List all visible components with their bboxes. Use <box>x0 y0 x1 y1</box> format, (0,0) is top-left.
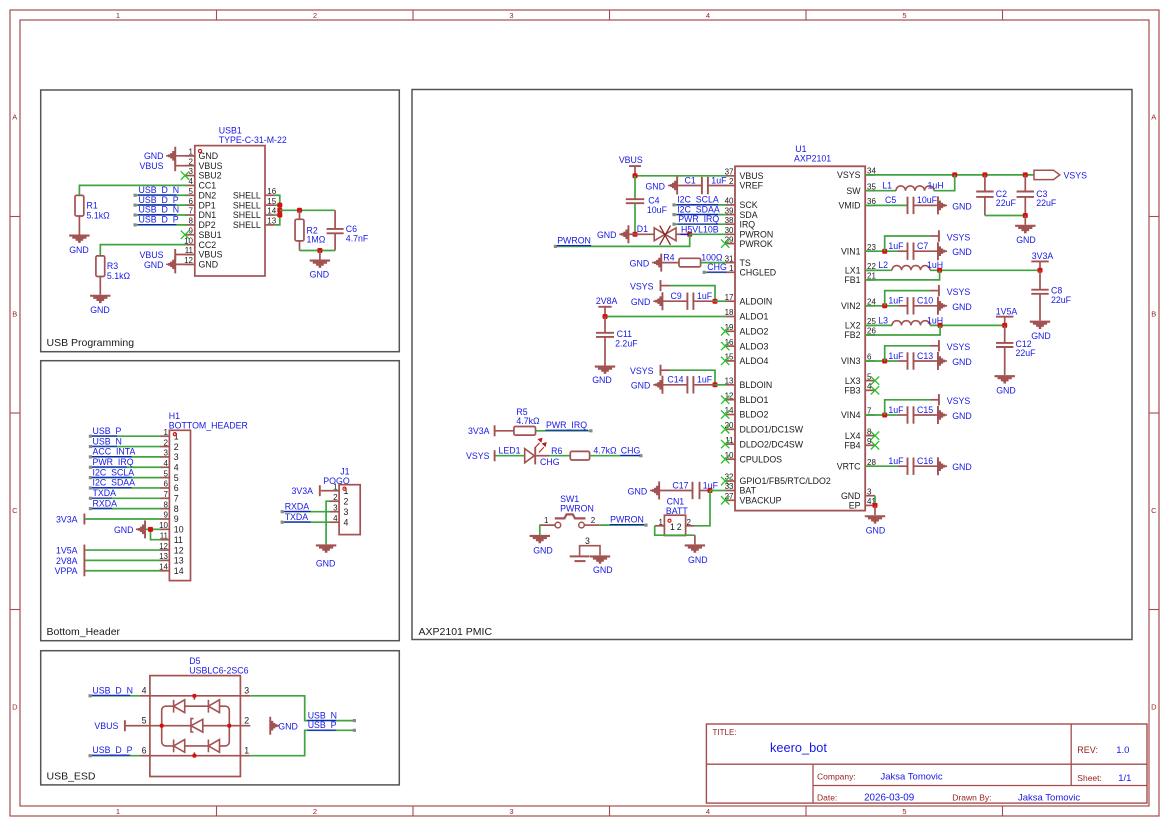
J1 pin 4 <box>330 521 339 523</box>
connector J1 body <box>339 485 360 535</box>
U1 pin 16 (ALDO3) <box>725 345 735 347</box>
svg-text:6: 6 <box>174 483 179 493</box>
ground symbol at SW1 pin 1 <box>530 535 550 543</box>
connector H1 body <box>169 430 190 580</box>
wire D5 pin 3 to net USB_N <box>250 696 354 721</box>
D5 center zener diode <box>191 719 194 732</box>
wire U1 to C15 node <box>865 414 898 416</box>
U1 pin 37 (VBUS) <box>725 175 735 177</box>
svg-text:USBLC6-2SC6: USBLC6-2SC6 <box>189 666 248 676</box>
svg-text:6: 6 <box>164 480 169 489</box>
no-connect X at U1 pin 15 <box>721 357 729 365</box>
svg-text:GND: GND <box>533 546 553 556</box>
svg-text:LX3: LX3 <box>845 376 861 386</box>
capacitor C10 <box>898 305 908 307</box>
svg-text:GND: GND <box>69 245 89 255</box>
ground symbol below C12 <box>995 375 1015 383</box>
svg-text:DP1: DP1 <box>199 200 216 210</box>
frame column tick 4 top <box>805 10 807 20</box>
svg-text:VIN2: VIN2 <box>841 301 861 311</box>
svg-text:ALDO4: ALDO4 <box>740 356 769 366</box>
capacitor C12 <box>1004 325 1006 342</box>
no-connect X at U1 pin 12 <box>721 396 729 404</box>
connector CN1 body <box>664 515 685 535</box>
svg-text:L3: L3 <box>878 315 888 325</box>
resistor R4 <box>660 262 679 264</box>
svg-text:USB_N: USB_N <box>308 710 337 720</box>
svg-text:B: B <box>12 310 17 319</box>
USB1 pin 7 (DN1) <box>185 214 195 216</box>
wire R1 to ground <box>78 216 80 235</box>
capacitor C11 <box>604 317 606 333</box>
svg-text:C10: C10 <box>917 296 933 306</box>
wire net I2C_SDAA to U1 pin 39 <box>674 214 726 216</box>
svg-text:3V3A: 3V3A <box>468 426 490 436</box>
junction at 1V5A node <box>1002 323 1007 328</box>
U1 pin 4 (FB3) <box>865 389 875 391</box>
svg-text:B: B <box>1151 310 1156 319</box>
ground symbol below C8 <box>1030 321 1050 329</box>
svg-text:DN1: DN1 <box>199 210 217 220</box>
svg-text:VSYS: VSYS <box>466 451 490 461</box>
svg-text:GND: GND <box>952 201 972 211</box>
svg-text:VSYS: VSYS <box>947 342 971 352</box>
power flag 1V5A at H1 pin 12 <box>85 549 160 551</box>
U1 pin 27 (VBACKUP) <box>725 499 735 501</box>
svg-text:CC1: CC1 <box>199 181 217 191</box>
diode array D5 body <box>150 676 241 777</box>
wire net I2C_SCLA to U1 pin 40 <box>674 204 726 206</box>
no-connect X at U1 pin 20 <box>721 425 729 433</box>
frame column tick 2 bottom <box>412 806 414 816</box>
wire R3 to ground <box>99 277 101 295</box>
power flag GND at C13 <box>937 352 947 370</box>
wire net USB_N to H1 pin 2 <box>90 446 160 448</box>
svg-text:USB_D_P: USB_D_P <box>139 215 179 225</box>
H1 pin 8 <box>160 508 169 510</box>
D5 pin 4 rail <box>140 695 240 697</box>
svg-text:Drawn By:: Drawn By: <box>952 793 991 803</box>
wire net USB_D_N to USB1 pin 7 <box>135 214 187 216</box>
J1 pin 1 <box>330 490 339 492</box>
junction at D1 right / PWRON <box>687 232 692 237</box>
capacitor C1 <box>676 185 702 187</box>
svg-text:14: 14 <box>174 566 184 576</box>
svg-text:IRQ: IRQ <box>740 219 756 229</box>
svg-text:5: 5 <box>164 469 169 478</box>
svg-text:13: 13 <box>174 556 184 566</box>
svg-text:4.7kΩ: 4.7kΩ <box>593 445 617 455</box>
svg-text:1MΩ: 1MΩ <box>307 235 326 245</box>
wire net USB_D_N to D5 pin 4 <box>90 695 140 697</box>
H1 pin 11 <box>160 539 169 541</box>
svg-text:TXDA: TXDA <box>285 512 309 522</box>
svg-text:GND: GND <box>199 260 219 270</box>
U1 pin 38 (IRQ) <box>725 223 735 225</box>
U1 pin 40 (SCK) <box>725 204 735 206</box>
svg-text:1uF: 1uF <box>697 291 713 301</box>
svg-text:1/1: 1/1 <box>1118 773 1131 784</box>
wire GND to H1 pin 11 <box>151 529 161 539</box>
ground symbol below CN1 <box>685 544 705 552</box>
USB1 pin 9 (SBU1) <box>185 234 195 236</box>
svg-text:GND: GND <box>592 375 612 385</box>
frame column tick 2 top <box>412 10 414 20</box>
wire SW1 pin 1 to ground <box>539 525 541 535</box>
svg-text:BATT: BATT <box>666 506 688 516</box>
wire 2V8A to U1 pin 18 ALDO1 <box>605 316 726 318</box>
frame row tick 2 left <box>10 412 20 414</box>
svg-text:3: 3 <box>164 449 169 458</box>
title block column divider left <box>812 764 814 803</box>
frame row tick 3 left <box>10 609 20 611</box>
power flag GND at C10 <box>937 297 947 315</box>
svg-text:GND: GND <box>144 260 164 270</box>
svg-text:C7: C7 <box>917 241 928 251</box>
svg-text:5: 5 <box>142 715 147 725</box>
svg-text:VSYS: VSYS <box>630 366 654 376</box>
resistor R2 <box>299 210 301 219</box>
D5 pin 6 rail <box>140 755 250 757</box>
svg-text:L1: L1 <box>882 181 892 191</box>
svg-text:2.2uF: 2.2uF <box>615 339 638 349</box>
U1 pin 3 (GND) <box>865 495 875 497</box>
svg-text:R4: R4 <box>663 253 674 263</box>
svg-text:4: 4 <box>333 514 338 523</box>
CN1 pin 1 marker <box>668 519 671 522</box>
svg-text:2026-03-09: 2026-03-09 <box>864 793 914 804</box>
svg-text:VIN4: VIN4 <box>841 410 861 420</box>
svg-text:2V8A: 2V8A <box>596 296 618 306</box>
power flag VPPA at H1 pin 14 <box>85 570 160 572</box>
svg-text:A: A <box>12 113 17 122</box>
U1 pin 6 (VIN3) <box>865 360 875 362</box>
svg-text:VBUS: VBUS <box>740 171 764 181</box>
svg-text:4.7nF: 4.7nF <box>346 234 369 244</box>
svg-text:2: 2 <box>333 493 338 502</box>
svg-text:SCK: SCK <box>740 200 758 210</box>
svg-text:38: 38 <box>725 216 734 225</box>
J1 pin 2 <box>330 500 339 502</box>
D5 top-right diode <box>207 700 209 713</box>
wire U1 to C7 node <box>865 250 898 252</box>
svg-text:TS: TS <box>740 258 751 268</box>
svg-text:LX1: LX1 <box>845 266 861 276</box>
svg-text:9: 9 <box>164 511 169 520</box>
svg-text:GND: GND <box>645 181 665 191</box>
svg-text:1.0: 1.0 <box>1116 745 1129 756</box>
power flag 3V3A at J1 pin 1 <box>321 490 330 492</box>
svg-text:C: C <box>12 506 18 515</box>
wire net CHG to U1 pin 1 CHGLED <box>704 271 726 273</box>
capacitor C2 <box>984 175 986 191</box>
no-connect X at USB1 pin 9 SBU1 <box>181 231 189 239</box>
svg-text:3: 3 <box>174 452 179 462</box>
svg-text:C4: C4 <box>648 195 659 205</box>
svg-text:R6: R6 <box>551 446 562 456</box>
svg-text:2: 2 <box>344 496 349 506</box>
svg-text:2: 2 <box>174 442 179 452</box>
svg-text:BLDO2: BLDO2 <box>740 410 769 420</box>
no-connect X at U1 pin 11 <box>721 440 729 448</box>
U1 pin 29 (PWROK) <box>725 243 735 245</box>
resistor R5 <box>514 427 536 436</box>
wire U1 to C10 node <box>865 305 898 307</box>
svg-text:3: 3 <box>509 11 513 20</box>
svg-text:VSYS: VSYS <box>947 232 971 242</box>
junction at H1 pin 10 <box>148 527 153 532</box>
USB1 pin 5 (DN2) <box>185 194 195 196</box>
svg-text:GND: GND <box>1016 235 1036 245</box>
frame column tick 4 bottom <box>805 806 807 816</box>
power flag GND at H1 pins 10-11 <box>136 520 146 538</box>
svg-text:D: D <box>12 703 18 712</box>
U1 pin 41 (EP) <box>865 504 875 506</box>
wire EP to ground <box>874 505 876 515</box>
svg-text:22uF: 22uF <box>996 198 1017 208</box>
D5 junction middle-left <box>160 724 164 728</box>
svg-text:5.1kΩ: 5.1kΩ <box>87 210 111 220</box>
junction at 2V8A node <box>603 314 608 319</box>
svg-text:GPIO1/FB5/RTC/LDO2: GPIO1/FB5/RTC/LDO2 <box>740 476 831 486</box>
svg-text:1uF: 1uF <box>888 351 904 361</box>
svg-text:VBUS: VBUS <box>140 250 164 260</box>
D5 pin 3 stub <box>240 695 250 697</box>
no-connect X at U1 pin 29 <box>721 239 729 247</box>
wire net USB_D_P to D5 pin 6 <box>90 755 140 757</box>
svg-text:USB_ESD: USB_ESD <box>47 771 96 783</box>
wire net USB_D_N to USB1 pin 5 <box>135 194 187 196</box>
H1 pin 2 <box>160 446 169 448</box>
svg-text:PWR_IRQ: PWR_IRQ <box>546 420 587 430</box>
svg-text:1: 1 <box>729 264 734 273</box>
svg-text:4: 4 <box>706 807 710 816</box>
svg-text:18: 18 <box>725 308 734 317</box>
svg-text:GND: GND <box>310 270 330 280</box>
svg-text:C9: C9 <box>671 291 682 301</box>
USB1 pin 1 (GND) <box>185 155 195 157</box>
svg-text:SDA: SDA <box>740 210 758 220</box>
svg-text:I2C_SCLA: I2C_SCLA <box>677 195 719 205</box>
svg-text:1uF: 1uF <box>888 296 904 306</box>
svg-text:10uF: 10uF <box>647 205 668 215</box>
svg-text:R1: R1 <box>87 201 98 211</box>
junction at VBUS node <box>633 173 638 178</box>
section box USB_ESD <box>41 651 400 785</box>
junction at C7 <box>882 249 887 254</box>
wire net I2C_SCLA to H1 pin 5 <box>90 477 160 479</box>
svg-text:LX2: LX2 <box>845 321 861 331</box>
svg-text:USB1: USB1 <box>219 126 242 136</box>
svg-text:USB Programming: USB Programming <box>47 337 135 349</box>
U1 pin 19 (ALDO2) <box>725 330 735 332</box>
svg-text:2: 2 <box>164 438 169 447</box>
section box AXP2101 PMIC <box>412 90 1132 640</box>
svg-text:TITLE:: TITLE: <box>713 728 737 737</box>
svg-text:GND: GND <box>90 305 110 315</box>
wire L3 output <box>930 324 1005 326</box>
svg-text:GND: GND <box>952 462 972 472</box>
svg-text:C16: C16 <box>917 456 933 466</box>
svg-text:2: 2 <box>313 11 317 20</box>
wire D5 pin 1 to net USB_P <box>250 730 354 755</box>
U1 pin 32 (GPIO1/FB5/RTC/LDO2) <box>725 480 735 482</box>
svg-text:1: 1 <box>164 428 169 437</box>
svg-text:ALDO3: ALDO3 <box>740 341 769 351</box>
svg-text:TYPE-C-31-M-22: TYPE-C-31-M-22 <box>219 135 287 145</box>
svg-text:4: 4 <box>164 459 169 468</box>
junction at BLDOIN node <box>713 382 718 387</box>
power flag GND at C1 <box>668 177 678 195</box>
svg-text:FB1: FB1 <box>844 275 860 285</box>
svg-text:R3: R3 <box>107 261 118 271</box>
svg-text:DN2: DN2 <box>199 190 217 200</box>
H1 pin 7 <box>160 497 169 499</box>
svg-text:VBUS: VBUS <box>140 161 164 171</box>
svg-text:U1: U1 <box>795 144 806 154</box>
svg-text:5.1kΩ: 5.1kΩ <box>107 271 131 281</box>
svg-text:8: 8 <box>164 500 169 509</box>
SW1 pin 2 stub <box>584 524 599 526</box>
wire CC1 to R1 <box>79 185 187 195</box>
svg-text:SHELL: SHELL <box>233 200 261 210</box>
svg-text:5: 5 <box>189 187 194 196</box>
H1 pin 1 <box>160 435 169 437</box>
capacitor C9 <box>662 300 688 302</box>
svg-text:1uF: 1uF <box>888 456 904 466</box>
svg-text:USB_N: USB_N <box>93 436 122 446</box>
svg-text:PWRON: PWRON <box>610 515 644 525</box>
svg-text:33: 33 <box>725 482 734 491</box>
svg-text:VBUS: VBUS <box>94 721 118 731</box>
svg-text:TXDA: TXDA <box>93 488 117 498</box>
frame column tick 3 bottom <box>609 806 611 816</box>
ground symbol below R2/C6 <box>319 251 321 260</box>
svg-text:AXP2101 PMIC: AXP2101 PMIC <box>419 626 493 638</box>
svg-text:I2C_SCLA: I2C_SCLA <box>93 467 135 477</box>
svg-text:C11: C11 <box>617 329 633 339</box>
svg-text:CHG: CHG <box>540 457 560 467</box>
U1 pin 21 (FB1) <box>865 279 875 281</box>
svg-text:CPULDOS: CPULDOS <box>740 454 783 464</box>
junction at FB1 tap <box>937 268 942 273</box>
svg-text:BOTTOM_HEADER: BOTTOM_HEADER <box>169 421 248 431</box>
wire R2/C6 bottom to ground <box>299 241 301 251</box>
J1 pin 1 open-circle marker <box>343 487 346 490</box>
U1 pin 22 (LX1) <box>865 269 875 271</box>
svg-text:C15: C15 <box>917 405 933 415</box>
power flag GND at C15 <box>937 406 947 424</box>
section box USB Programming <box>41 90 400 352</box>
wire LED1 to R6 <box>536 455 549 457</box>
svg-text:1: 1 <box>544 516 549 525</box>
wire VBUS node down to C4 <box>634 176 636 199</box>
svg-text:PWR_IRQ: PWR_IRQ <box>678 214 719 224</box>
H1 pin 14 <box>160 570 169 572</box>
ground symbol below J1 <box>316 544 336 552</box>
title block row divider 1 <box>706 763 1147 765</box>
svg-text:USB_D_P: USB_D_P <box>139 195 179 205</box>
H1 pin 5 <box>160 477 169 479</box>
wire CN1 pin 1 to ground <box>655 526 695 535</box>
power flag GND at C5 <box>937 196 947 214</box>
power flag GND at USB1 pin 12 <box>176 263 195 265</box>
no-connect X at U1 pin 16 <box>721 342 729 350</box>
U1 pin 11 (DLDO2/DC4SW) <box>725 443 735 445</box>
no-connect X at U1 pin 9 <box>871 441 879 449</box>
ground symbol at SW1 pin 3 right <box>590 555 610 563</box>
svg-text:C5: C5 <box>885 195 896 205</box>
U1 pin 28 (VRTC) <box>865 465 875 467</box>
USB1 pin 12 (GND) <box>185 263 195 265</box>
svg-text:Company:: Company: <box>817 771 856 781</box>
svg-text:GND: GND <box>631 381 651 391</box>
svg-text:BLDO1: BLDO1 <box>740 395 769 405</box>
svg-text:GND: GND <box>866 526 886 536</box>
power flag GND at D5 pin 2 <box>269 717 279 735</box>
svg-text:SHELL: SHELL <box>233 190 261 200</box>
wire PWRON branch down-left <box>555 234 689 246</box>
svg-text:H5VL10B: H5VL10B <box>681 224 719 234</box>
svg-text:GND: GND <box>952 247 972 257</box>
wire FB1 return <box>865 270 939 280</box>
U1 pin 26 (FB2) <box>865 334 875 336</box>
junction at EP <box>873 503 878 508</box>
wire VSYS rail from U1 pin 34 <box>865 174 1034 176</box>
USB1 pin 10 (CC2) <box>185 244 195 246</box>
U1 pin 36 (VMID) <box>865 204 875 206</box>
svg-text:A: A <box>1151 113 1156 122</box>
CN1 pin 2 stub <box>686 525 695 527</box>
wire net PWR_IRQ to U1 pin 38 <box>674 223 726 225</box>
wire to ground below CN1 <box>694 535 696 544</box>
wire C4 to PWRON node <box>634 204 636 235</box>
U1 pin 17 (ALDOIN) <box>725 300 735 302</box>
ground symbol below C11 <box>595 366 615 374</box>
svg-text:ALDO1: ALDO1 <box>740 312 769 322</box>
wire FB2 return <box>865 325 940 335</box>
svg-text:VBUS: VBUS <box>199 161 223 171</box>
svg-text:PWROK: PWROK <box>740 239 773 249</box>
SW1 pin 1 stub <box>539 524 555 526</box>
svg-text:C1: C1 <box>685 176 696 186</box>
svg-text:L2: L2 <box>878 260 888 270</box>
no-connect X at U1 pin 8 <box>871 431 879 439</box>
power flag GND at R4 <box>652 254 662 272</box>
J1 pin 3 <box>330 511 339 513</box>
capacitor C7 <box>898 250 908 252</box>
svg-text:3: 3 <box>867 487 872 496</box>
svg-text:4.7kΩ: 4.7kΩ <box>516 416 540 426</box>
U1 pin 1 (CHGLED) <box>725 271 735 273</box>
capacitor C16 <box>898 465 908 467</box>
svg-text:CHG: CHG <box>621 445 641 455</box>
svg-text:6: 6 <box>142 745 147 755</box>
svg-text:LED1: LED1 <box>499 446 521 456</box>
svg-text:GND: GND <box>688 555 708 565</box>
svg-text:1: 1 <box>670 522 675 532</box>
svg-text:GND: GND <box>628 486 648 496</box>
wire SHELL to R2 and C6 <box>280 209 335 211</box>
ground symbol below R3 <box>90 295 110 303</box>
svg-text:DLDO1/DC1SW: DLDO1/DC1SW <box>740 425 804 435</box>
svg-text:VSYS: VSYS <box>947 287 971 297</box>
junction C3 ground node <box>1023 213 1028 218</box>
svg-text:CHG: CHG <box>707 262 727 272</box>
svg-text:4: 4 <box>706 11 710 20</box>
wire C9 node to U1 pin 17 <box>715 300 726 302</box>
svg-text:VIN1: VIN1 <box>841 246 861 256</box>
